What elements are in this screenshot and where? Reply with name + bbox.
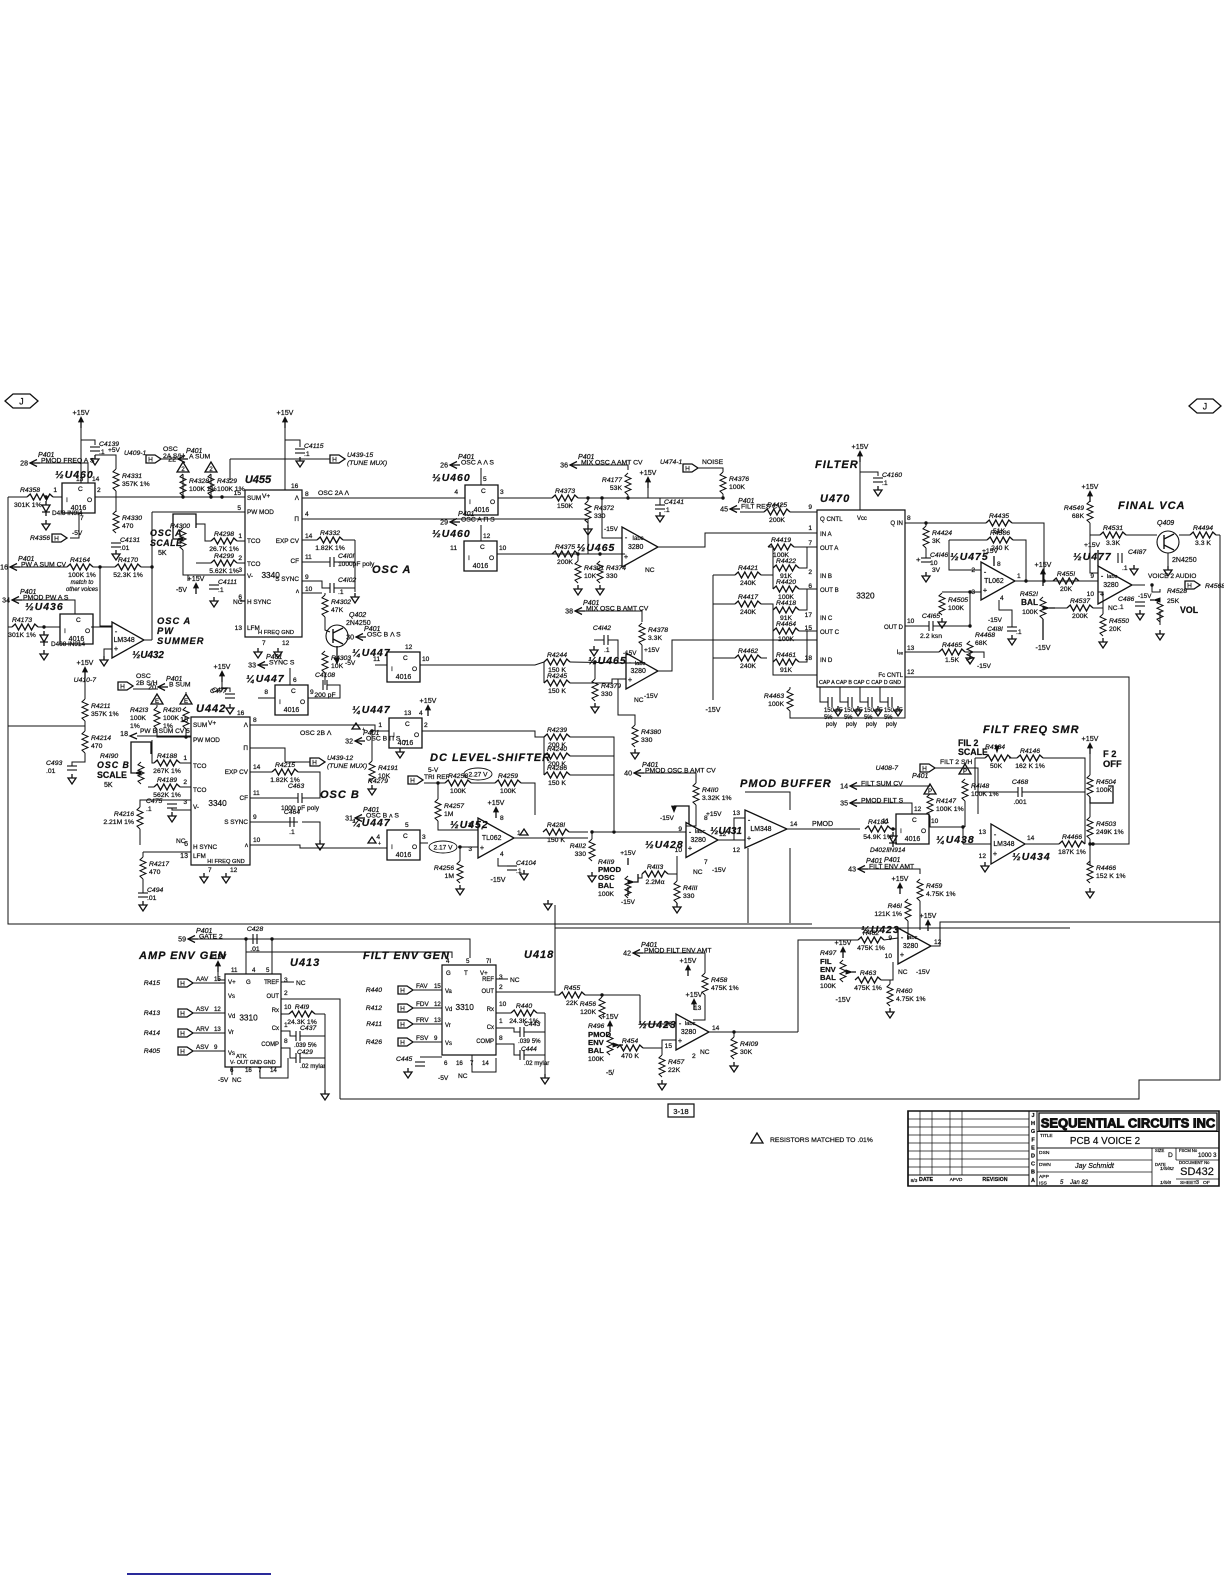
svg-text:H: H xyxy=(148,457,153,464)
svg-text:poly: poly xyxy=(866,722,877,728)
svg-text:OSC B: OSC B xyxy=(320,789,360,801)
svg-text:OSC 2B Λ: OSC 2B Λ xyxy=(300,730,332,737)
pin u413 p10 xyxy=(284,1004,292,1011)
label FILT FREQ SMR xyxy=(983,724,1080,736)
label pw xyxy=(157,626,205,646)
connector P401-33 xyxy=(248,654,295,670)
capacitor C477 xyxy=(210,688,235,698)
pin u442 p1 xyxy=(183,755,187,762)
ground g43 xyxy=(321,1090,329,1100)
svg-text:14: 14 xyxy=(790,821,798,828)
wire w105 xyxy=(250,748,285,762)
pin u447b p10 xyxy=(422,656,430,663)
svg-text:68K: 68K xyxy=(1072,513,1085,520)
resistor R4239 xyxy=(544,727,570,749)
wire w67 xyxy=(1093,607,1103,609)
svg-text:C4I42: C4I42 xyxy=(593,625,611,632)
resistor R460 xyxy=(887,984,926,1006)
svg-text:2: 2 xyxy=(97,487,101,494)
r497 lbl xyxy=(820,950,837,990)
svg-text:15: 15 xyxy=(180,717,188,724)
svg-text:1: 1 xyxy=(284,1022,288,1029)
wire w109 xyxy=(422,731,544,737)
resistor R4173 xyxy=(8,617,38,639)
resistor R4374 xyxy=(597,561,626,583)
resistor R4465 xyxy=(939,642,965,664)
svg-text:OUT: OUT xyxy=(481,989,494,995)
svg-text:C: C xyxy=(405,721,410,728)
pin u442 p11 xyxy=(253,790,260,797)
svg-text:3280: 3280 xyxy=(681,1029,697,1036)
junction d12 xyxy=(1150,583,1153,586)
label U418 xyxy=(524,949,554,961)
svg-text:FRV: FRV xyxy=(416,1017,429,1024)
svg-text:2: 2 xyxy=(468,822,472,829)
u408 lbl xyxy=(876,759,973,772)
svg-text:U408-7: U408-7 xyxy=(876,765,899,772)
svg-text:NC: NC xyxy=(296,980,306,987)
svg-text:Iabc: Iabc xyxy=(632,536,643,542)
pin u470 p10 xyxy=(907,618,915,625)
svg-text:2.2Mα: 2.2Mα xyxy=(645,879,664,886)
svg-text:IN A: IN A xyxy=(820,531,833,538)
svg-text:.01: .01 xyxy=(250,946,260,953)
wire w58b xyxy=(969,592,971,626)
resistor R4328 xyxy=(180,474,217,496)
svg-text:240K: 240K xyxy=(740,580,756,587)
svg-text:+15V: +15V xyxy=(640,469,657,477)
svg-text:+15V: +15V xyxy=(706,811,722,818)
svg-text:+: + xyxy=(688,844,693,853)
resistor R4417 xyxy=(735,594,761,616)
r4358 val xyxy=(14,502,42,509)
svg-text:R4435: R4435 xyxy=(989,513,1009,520)
svg-text:4: 4 xyxy=(419,710,423,717)
svg-text:1/5/82: 1/5/82 xyxy=(1160,1166,1174,1172)
svg-text:Λ: Λ xyxy=(295,495,300,502)
svg-text:13: 13 xyxy=(404,710,412,717)
svg-text:S SYNC: S SYNC xyxy=(224,819,248,826)
capacitor C4108 xyxy=(314,672,335,699)
svg-text:U413: U413 xyxy=(290,957,320,969)
svg-text:R455: R455 xyxy=(564,985,580,992)
svg-text:9: 9 xyxy=(214,1044,218,1051)
note match xyxy=(66,572,98,593)
junction d89 xyxy=(184,735,187,738)
u413 pins right xyxy=(261,980,279,1048)
svg-text:H FREQ GND: H FREQ GND xyxy=(258,630,294,636)
op-amp U428 xyxy=(686,823,718,858)
svg-text:R4I09: R4I09 xyxy=(740,1041,758,1048)
ground g42 xyxy=(886,1008,894,1018)
wire w R426 xyxy=(413,1041,442,1043)
u418 bot lbl xyxy=(438,1073,468,1082)
svg-text:43: 43 xyxy=(848,867,856,874)
resistor R4462 xyxy=(735,648,761,670)
junction dr4177 xyxy=(626,496,629,499)
svg-text:30K: 30K xyxy=(740,1049,753,1056)
wire w82 xyxy=(570,662,626,663)
wire w165b xyxy=(324,1014,326,1090)
u475 neg xyxy=(987,617,1003,633)
svg-text:BAL: BAL xyxy=(588,1046,604,1055)
wire w147 xyxy=(1025,843,1059,845)
svg-text:+15V: +15V xyxy=(188,575,205,583)
svg-text:+15V: +15V xyxy=(892,875,909,883)
capacitor C463 xyxy=(298,793,302,803)
svg-text:OSC: OSC xyxy=(136,673,151,680)
vol lbl xyxy=(1167,588,1199,615)
svg-text:R4421: R4421 xyxy=(738,565,758,572)
d4021 lbl xyxy=(870,847,906,854)
wire lw15 xyxy=(773,662,817,675)
wire cw1 xyxy=(840,687,848,702)
svg-text:-: - xyxy=(689,827,692,836)
ground cg3 xyxy=(894,706,902,716)
wire w53 xyxy=(789,687,791,689)
wire w121 xyxy=(420,842,428,844)
svg-text:30: 30 xyxy=(346,635,354,642)
pin u447c p13 xyxy=(404,710,412,717)
label U460a xyxy=(55,470,94,481)
svg-text:CF: CF xyxy=(291,558,300,565)
ground g13 xyxy=(596,585,604,595)
svg-text:U439-12: U439-12 xyxy=(327,755,353,762)
svg-text:R4189: R4189 xyxy=(157,777,177,784)
svg-text:B SUM: B SUM xyxy=(169,682,191,689)
connector P401-45 xyxy=(720,498,782,514)
r497 neg xyxy=(835,996,850,1004)
label U447b xyxy=(352,648,391,659)
wire w117 xyxy=(521,783,535,815)
wire w40 xyxy=(497,553,625,555)
wire w142 xyxy=(1009,757,1017,759)
svg-text:C494: C494 xyxy=(147,887,163,894)
svg-text:9: 9 xyxy=(310,689,314,696)
symbol t2b xyxy=(205,462,217,473)
u413 bot pins xyxy=(230,1067,277,1074)
svg-text:C493: C493 xyxy=(46,760,62,767)
svg-text:-: - xyxy=(984,568,987,577)
svg-text:11: 11 xyxy=(373,656,380,663)
resistor R4549 xyxy=(1064,501,1093,523)
svg-text:-: - xyxy=(994,830,997,839)
power +15V c4111p xyxy=(188,575,205,594)
svg-text:R4211: R4211 xyxy=(91,703,111,710)
svg-text:5: 5 xyxy=(266,967,270,974)
svg-text:10: 10 xyxy=(253,837,261,844)
svg-text:EXP CV: EXP CV xyxy=(225,769,249,776)
svg-text:APVD: APVD xyxy=(950,1177,963,1182)
wire w100 xyxy=(142,852,144,857)
wire w45 xyxy=(658,533,817,547)
svg-text:S SYNC: S SYNC xyxy=(275,576,299,583)
wire w R411 xyxy=(413,1023,442,1025)
ground g24 xyxy=(590,646,598,656)
svg-text:6: 6 xyxy=(293,677,297,684)
wire w151 xyxy=(868,869,920,874)
svg-text:13: 13 xyxy=(694,1005,702,1012)
label U465b xyxy=(588,656,627,667)
wire w2 xyxy=(81,440,95,445)
wire w31c xyxy=(334,587,355,589)
wire w55 xyxy=(905,522,986,524)
svg-text:J: J xyxy=(1031,1113,1034,1119)
wire w R440 xyxy=(413,989,442,991)
svg-text:R412: R412 xyxy=(366,1005,382,1012)
junction d6 xyxy=(220,495,223,498)
lbl R413 xyxy=(144,1006,222,1017)
u413 bot lbl xyxy=(218,1077,242,1084)
svg-text:14: 14 xyxy=(253,764,261,771)
svg-text:SCALE: SCALE xyxy=(97,770,127,780)
svg-text:LM348: LM348 xyxy=(993,841,1014,848)
svg-text:Q402: Q402 xyxy=(349,612,366,619)
wire w19 xyxy=(91,626,112,628)
svg-text:R4188: R4188 xyxy=(157,753,177,760)
pin u418 p2 xyxy=(499,984,503,991)
svg-text:3280: 3280 xyxy=(630,668,646,675)
c4146v xyxy=(916,555,941,574)
svg-text:REF: REF xyxy=(267,980,279,986)
wire w156 xyxy=(881,962,893,980)
svg-text:6: 6 xyxy=(444,1060,448,1067)
svg-text:D4I3 IN9I4: D4I3 IN9I4 xyxy=(52,510,83,517)
wire w pwmod2 xyxy=(152,511,245,513)
svg-text:TCO: TCO xyxy=(193,787,206,794)
symbol t2d xyxy=(180,694,192,705)
svg-text:32: 32 xyxy=(345,739,353,746)
svg-text:V+: V+ xyxy=(480,970,488,977)
svg-text:O: O xyxy=(87,497,92,504)
svg-text:12: 12 xyxy=(214,1006,221,1013)
svg-text:R4420: R4420 xyxy=(776,579,796,586)
svg-text:DC LEVEL-SHIFTER: DC LEVEL-SHIFTER xyxy=(430,752,551,764)
capacitor C4172 xyxy=(888,697,892,707)
wire w65 xyxy=(1015,580,1098,582)
wire w167 xyxy=(281,1048,296,1058)
pin u434 p13 xyxy=(979,829,987,836)
label +5V xyxy=(108,447,121,454)
wire osc2aa xyxy=(302,497,465,499)
connector R4279 xyxy=(408,776,423,785)
svg-text:R4298: R4298 xyxy=(214,531,234,538)
wire osc2ba xyxy=(250,725,389,731)
wire w29 xyxy=(230,458,330,460)
wire w179 xyxy=(524,1031,545,1033)
svg-text:8/3: 8/3 xyxy=(911,1178,918,1184)
ground g39 xyxy=(588,872,596,882)
wire w55b xyxy=(1012,523,1044,581)
svg-text:C: C xyxy=(1031,1162,1035,1168)
fil2 scale xyxy=(958,738,988,757)
junction d16 xyxy=(590,830,593,833)
analog switch U447a xyxy=(275,685,308,715)
svg-text:9: 9 xyxy=(808,504,812,511)
capacitor C4153 xyxy=(828,697,832,707)
ground g29 xyxy=(168,812,176,822)
resistor R4329 xyxy=(208,474,245,496)
svg-text:-: - xyxy=(748,816,751,825)
ground g20 xyxy=(1164,566,1172,576)
svg-text:3K: 3K xyxy=(932,538,941,545)
ground g6 xyxy=(210,597,218,607)
svg-text:R4506: R4506 xyxy=(990,530,1010,537)
svg-text:C4I46: C4I46 xyxy=(930,552,948,559)
pin u470 p2 xyxy=(808,569,812,576)
pin s3 p11 xyxy=(450,545,457,552)
wire w183 xyxy=(555,992,559,995)
svg-text:Iabc: Iabc xyxy=(635,661,646,667)
svg-text:U409-1: U409-1 xyxy=(124,450,147,457)
svg-text:PW: PW xyxy=(157,626,174,636)
svg-text:470: 470 xyxy=(91,743,103,750)
svg-text:3280: 3280 xyxy=(903,943,919,950)
svg-text:½U460: ½U460 xyxy=(55,470,94,481)
svg-text:.1: .1 xyxy=(604,647,610,654)
svg-text:+: + xyxy=(624,552,629,561)
label U413 xyxy=(290,957,320,969)
junction d17 xyxy=(612,830,615,833)
svg-text:E: E xyxy=(155,699,159,705)
pin u475 p1 xyxy=(1017,573,1021,580)
u470 pin labels xyxy=(820,516,904,679)
wire w R414 xyxy=(193,1032,225,1034)
power +15V f2 vp xyxy=(1082,735,1099,754)
wire w89c xyxy=(157,729,191,737)
wire wr4113 xyxy=(638,874,642,878)
svg-text:100K 1%: 100K 1% xyxy=(68,572,96,579)
label U460b xyxy=(432,473,471,484)
svg-text:121K 1%: 121K 1% xyxy=(874,911,902,918)
svg-text:5-V: 5-V xyxy=(428,767,439,774)
svg-text:C: C xyxy=(480,544,485,551)
power +15V top xyxy=(73,409,90,428)
svg-text:4: 4 xyxy=(446,958,450,965)
label U434 xyxy=(1012,852,1051,863)
resistor R4109 xyxy=(731,1037,758,1059)
analog switch U460b xyxy=(465,485,498,515)
lbl R405 xyxy=(144,1044,218,1055)
svg-text:11: 11 xyxy=(231,967,238,974)
resistor R4259 xyxy=(495,773,521,795)
wire wc4141 xyxy=(659,498,661,505)
capacitor C4111 xyxy=(209,579,237,594)
svg-text:PCB 4 VOICE 2: PCB 4 VOICE 2 xyxy=(1070,1136,1140,1147)
svg-text:Q CNTL: Q CNTL xyxy=(820,516,843,523)
pin u418 p8 xyxy=(499,1035,503,1042)
svg-text:C475: C475 xyxy=(146,798,162,805)
svg-text:Iₑₑ: Iₑₑ xyxy=(897,649,904,656)
ground g33 xyxy=(226,704,234,714)
svg-text:42: 42 xyxy=(623,951,631,958)
svg-text:½U431: ½U431 xyxy=(710,826,742,837)
ground cg1 xyxy=(854,706,862,716)
pin u442 p8 xyxy=(253,717,257,724)
pin s3 p12 xyxy=(483,533,491,540)
svg-text:15: 15 xyxy=(234,490,242,497)
svg-text:14: 14 xyxy=(92,476,100,483)
u413 nc xyxy=(296,980,306,987)
svg-text:Cx: Cx xyxy=(272,1026,279,1032)
svg-text:D: D xyxy=(1031,1154,1035,1160)
svg-text:R459: R459 xyxy=(926,883,942,890)
capacitor C4187 xyxy=(1118,553,1122,563)
pin u447c p4 xyxy=(419,710,423,717)
svg-text:poly: poly xyxy=(826,722,837,728)
title row xyxy=(1037,1132,1219,1148)
pin u475 p4 xyxy=(1000,595,1004,602)
svg-text:R426: R426 xyxy=(366,1039,382,1046)
ground g18 xyxy=(1008,635,1016,645)
svg-text:12: 12 xyxy=(979,853,987,860)
pin u470 p8 xyxy=(907,515,911,522)
svg-text:C: C xyxy=(403,833,408,840)
svg-text:OUT A: OUT A xyxy=(820,545,839,552)
svg-text:J: J xyxy=(1203,402,1207,412)
svg-text:100K: 100K xyxy=(729,484,745,491)
lbl D408 xyxy=(51,641,85,648)
pin u442 p2 xyxy=(183,779,187,786)
label U447c xyxy=(352,705,391,716)
svg-text:11: 11 xyxy=(882,818,889,825)
wire w165 xyxy=(315,1013,325,1015)
svg-text:68K: 68K xyxy=(975,640,988,647)
label U423a xyxy=(861,925,900,936)
wire w172 xyxy=(496,978,508,980)
power +15V oscb vp xyxy=(77,659,94,678)
connector R415 xyxy=(178,979,193,988)
svg-text:EXP CV: EXP CV xyxy=(276,538,300,545)
svg-text:TL062: TL062 xyxy=(984,578,1004,585)
capacitor C468 xyxy=(1012,779,1028,806)
wire w16 xyxy=(22,600,75,614)
label OSC A xyxy=(372,564,411,576)
pin u438 p12 xyxy=(914,806,922,813)
capacitor C4165 xyxy=(920,613,942,640)
wire lw7 xyxy=(799,547,807,568)
wire w36 xyxy=(308,685,340,698)
wire lw13 xyxy=(761,657,767,659)
svg-text:+: + xyxy=(114,644,119,653)
svg-text:12: 12 xyxy=(282,640,290,647)
junction d82 xyxy=(593,660,596,663)
svg-text:O: O xyxy=(412,666,417,673)
svg-text:2: 2 xyxy=(424,722,428,729)
wire w149 xyxy=(1089,803,1091,817)
wire w168 xyxy=(300,1035,325,1037)
wire w39 xyxy=(480,525,482,541)
svg-text:R4164: R4164 xyxy=(70,557,90,564)
svg-text:15: 15 xyxy=(805,625,813,632)
power +15V u452 vp xyxy=(488,799,505,818)
label U470 xyxy=(820,493,850,505)
svg-text:COMP: COMP xyxy=(261,1042,279,1048)
power +15V r497 vp xyxy=(835,939,852,958)
svg-text:-15V: -15V xyxy=(705,706,720,714)
svg-text:U474-1: U474-1 xyxy=(660,459,683,466)
pin u423a p12 xyxy=(934,939,942,946)
svg-text:4: 4 xyxy=(305,511,309,518)
pin u447a p9 xyxy=(310,689,314,696)
wire wr4111 xyxy=(668,874,677,881)
junction d22 xyxy=(244,937,247,940)
svg-text:I: I xyxy=(393,732,395,739)
svg-text:+: + xyxy=(480,843,485,852)
svg-text:14: 14 xyxy=(270,1067,277,1074)
wire wc4146 xyxy=(925,548,927,558)
capacitor C4115 xyxy=(295,443,324,458)
